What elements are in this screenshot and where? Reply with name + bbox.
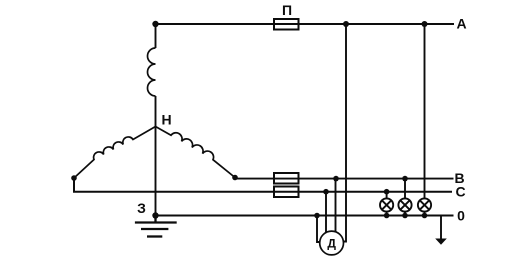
wire main vertical (phase A to star point to ground) — [155, 24, 157, 48]
svg-text:Д: Д — [327, 237, 336, 251]
node neutral/ground junction — [152, 212, 158, 218]
svg-text:0: 0 — [457, 208, 465, 224]
motor Д — [320, 231, 344, 255]
repeated earthing of neutral (arrow) — [440, 216, 442, 240]
node B-line to motor — [333, 176, 339, 182]
node junction A-line/winding — [152, 21, 158, 27]
lamp HL1 — [380, 198, 393, 215]
node A-line to motor drop — [343, 21, 349, 27]
svg-text:С: С — [455, 184, 465, 200]
wire C drop to motor — [325, 192, 327, 232]
node lamp 1 to 0-line — [384, 213, 390, 219]
svg-text:П: П — [282, 2, 292, 18]
wire B drop to motor — [335, 179, 337, 232]
fuse C — [274, 187, 299, 198]
node 0-line to motor case — [314, 213, 320, 219]
node A-line to lamp drop — [422, 21, 428, 27]
wire line A horizontal — [156, 23, 455, 25]
svg-text:А: А — [456, 16, 466, 32]
node C-line to lamp 1 — [384, 189, 390, 195]
lamp HL2 — [398, 198, 411, 215]
winding A (vertical coil) — [148, 48, 156, 96]
node C-line to motor — [323, 189, 329, 195]
wire line C: drop from winding end then horizontal — [74, 178, 452, 192]
node lamp 2 to 0-line — [402, 213, 408, 219]
wire B drop to lamp 2 — [404, 179, 406, 199]
wire line B horizontal — [235, 178, 454, 180]
winding C (left diagonal coil) — [74, 127, 156, 179]
node winding C end — [71, 175, 77, 181]
wire line 0 (neutral) horizontal — [156, 215, 454, 217]
winding B (right diagonal coil) — [156, 127, 236, 178]
wire neutral to motor case — [317, 216, 320, 243]
wire C drop to lamp 1 — [386, 192, 388, 199]
ground (transformer neutral earth) — [135, 216, 177, 237]
node lamp 3 to 0-line — [422, 213, 428, 219]
svg-text:Н: Н — [162, 112, 172, 128]
lamp HL3 — [418, 198, 431, 215]
node winding B end — [232, 175, 238, 181]
wire phase A drop to motor — [343, 24, 346, 242]
node B-line to lamp 2 — [402, 176, 408, 182]
svg-text:З: З — [137, 200, 146, 216]
fuse B — [274, 173, 299, 184]
wire phase A drop to lamp 3 — [424, 24, 426, 199]
fuse П — [274, 19, 299, 30]
